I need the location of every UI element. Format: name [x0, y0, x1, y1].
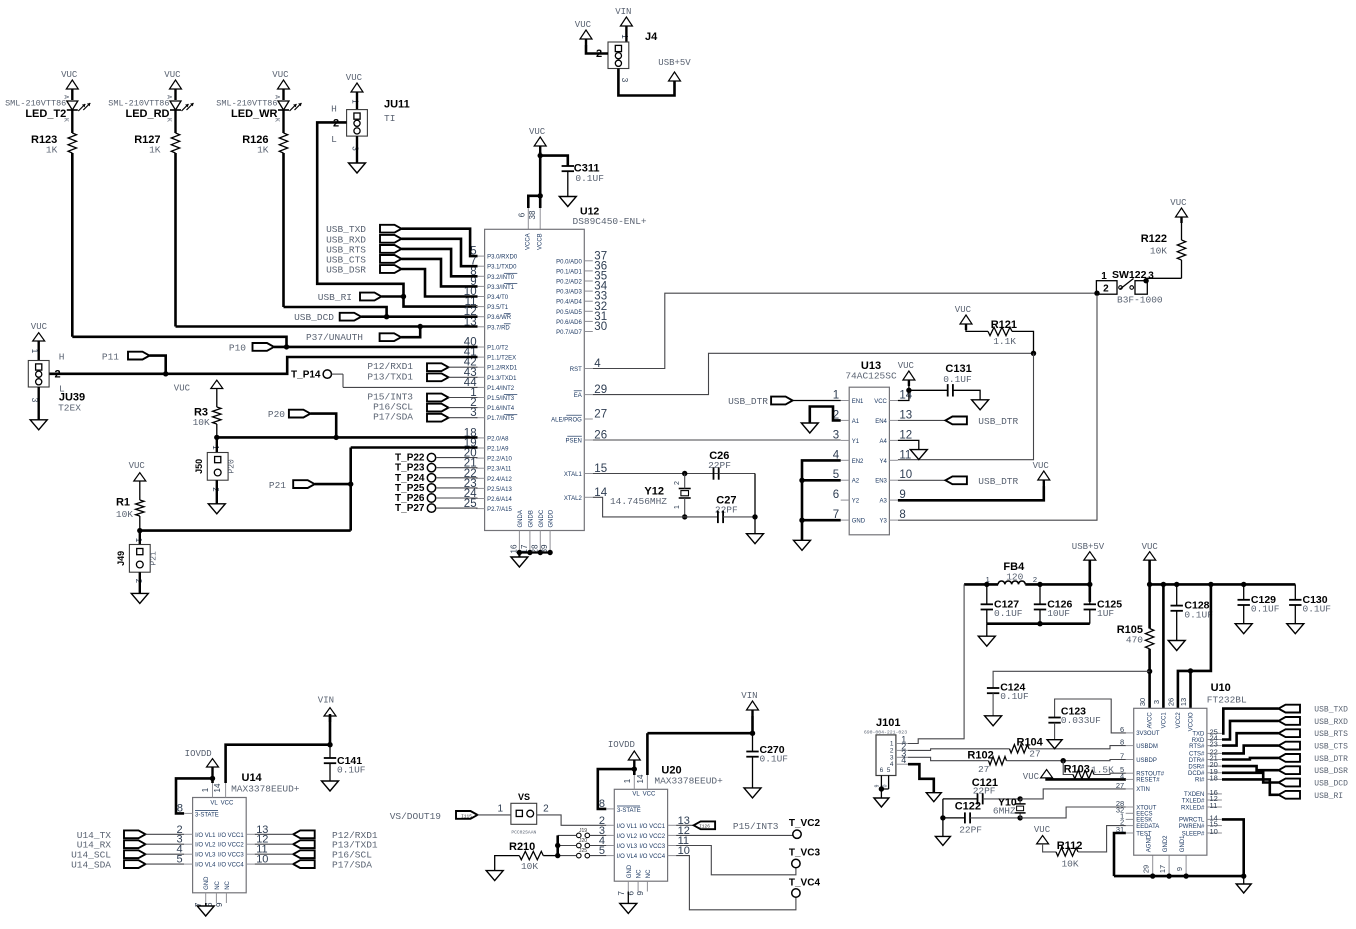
svg-text:I/O VCC4: I/O VCC4: [639, 854, 665, 860]
svg-text:8: 8: [899, 509, 905, 521]
svg-text:0.1UF: 0.1UF: [1184, 610, 1213, 621]
svg-text:ALE/PROG: ALE/PROG: [551, 418, 582, 424]
svg-text:PSEN: PSEN: [565, 439, 581, 445]
svg-text:P3.4/T0: P3.4/T0: [487, 295, 509, 301]
svg-text:J101: J101: [876, 717, 900, 729]
svg-text:USB_RXD: USB_RXD: [1314, 718, 1348, 727]
svg-text:I/O VL4: I/O VL4: [617, 854, 638, 860]
svg-text:9: 9: [636, 891, 645, 896]
svg-text:I/O VL1: I/O VL1: [195, 833, 216, 839]
svg-text:VUC: VUC: [575, 20, 592, 30]
svg-text:RI#: RI#: [1195, 778, 1205, 784]
svg-text:10: 10: [1210, 827, 1218, 836]
svg-text:P2.5/A13: P2.5/A13: [487, 487, 512, 493]
svg-text:P3.0/RXD0: P3.0/RXD0: [487, 255, 518, 261]
svg-text:R210: R210: [509, 841, 535, 853]
svg-text:VUC: VUC: [164, 70, 181, 80]
svg-text:0.1UF: 0.1UF: [1303, 604, 1332, 615]
svg-text:VUC: VUC: [1033, 461, 1050, 471]
svg-text:P1.0/T2: P1.0/T2: [487, 346, 509, 352]
svg-text:SML-210VTT86: SML-210VTT86: [108, 99, 169, 109]
svg-text:VUC: VUC: [346, 73, 363, 83]
svg-text:JU11: JU11: [384, 99, 410, 111]
svg-text:9: 9: [1175, 867, 1184, 871]
svg-text:DCD#: DCD#: [1188, 771, 1205, 777]
svg-text:I/O VL3: I/O VL3: [617, 844, 638, 850]
svg-text:NC: NC: [215, 880, 221, 889]
svg-text:VCCA: VCCA: [526, 233, 532, 250]
svg-text:GNDB: GNDB: [528, 510, 534, 527]
svg-text:H: H: [331, 104, 337, 115]
svg-text:VUC: VUC: [1034, 825, 1051, 835]
svg-text:RST: RST: [570, 367, 582, 373]
svg-text:27: 27: [594, 409, 607, 421]
svg-text:3: 3: [620, 78, 629, 83]
svg-text:P2.6/A14: P2.6/A14: [487, 497, 512, 503]
svg-text:VS: VS: [518, 792, 530, 802]
svg-text:R121: R121: [991, 319, 1017, 331]
svg-text:EN3: EN3: [875, 479, 887, 485]
svg-text:1UF: 1UF: [1097, 608, 1114, 619]
svg-text:RTS#: RTS#: [1189, 744, 1205, 750]
svg-text:27: 27: [1116, 781, 1124, 790]
svg-text:3: 3: [1148, 271, 1154, 282]
svg-text:GND2: GND2: [1163, 835, 1169, 852]
svg-text:PWREN#: PWREN#: [1179, 824, 1205, 830]
svg-text:VUC: VUC: [1170, 198, 1187, 208]
svg-text:USB_DTR: USB_DTR: [978, 416, 1018, 427]
svg-text:GND: GND: [852, 519, 866, 525]
svg-text:P1.1/T2EX: P1.1/T2EX: [487, 356, 516, 362]
svg-text:DS89C450-ENL+: DS89C450-ENL+: [573, 216, 647, 227]
svg-text:9: 9: [215, 902, 224, 907]
svg-text:P0.4/AD4: P0.4/AD4: [556, 300, 582, 306]
svg-text:VUC: VUC: [529, 127, 546, 137]
svg-text:8: 8: [1120, 738, 1124, 747]
svg-text:RESET#: RESET#: [1136, 778, 1160, 784]
svg-text:T_VC2: T_VC2: [789, 818, 821, 829]
svg-text:P2.7/A15: P2.7/A15: [487, 507, 512, 513]
svg-text:10: 10: [899, 469, 912, 481]
svg-text:VUC: VUC: [61, 70, 78, 80]
svg-text:27: 27: [978, 764, 989, 775]
svg-text:11: 11: [1210, 801, 1218, 810]
svg-text:A2: A2: [852, 479, 860, 485]
svg-text:P2.3/A11: P2.3/A11: [487, 467, 512, 473]
svg-text:1: 1: [986, 575, 990, 584]
svg-text:P0.5/AD5: P0.5/AD5: [556, 310, 582, 316]
svg-text:13: 13: [899, 409, 912, 421]
svg-text:R102: R102: [967, 749, 993, 761]
svg-text:3-STATE: 3-STATE: [195, 813, 219, 819]
svg-text:0.1UF: 0.1UF: [760, 754, 789, 765]
svg-text:USBDP: USBDP: [1136, 758, 1157, 764]
svg-text:U10: U10: [1211, 682, 1231, 694]
svg-text:22PF: 22PF: [959, 825, 982, 836]
svg-text:VIN: VIN: [615, 7, 631, 17]
svg-text:P11: P11: [102, 352, 119, 363]
svg-text:EN2: EN2: [852, 459, 864, 465]
svg-text:R104: R104: [1017, 736, 1044, 748]
svg-text:12: 12: [899, 429, 912, 441]
svg-text:9: 9: [875, 784, 881, 787]
svg-text:VCCB: VCCB: [537, 233, 543, 250]
svg-text:0.033UF: 0.033UF: [1061, 715, 1101, 726]
svg-text:1: 1: [620, 34, 629, 39]
svg-text:H: H: [59, 352, 65, 363]
svg-text:J4: J4: [645, 31, 658, 43]
svg-text:5: 5: [887, 767, 891, 774]
svg-text:2: 2: [543, 804, 549, 815]
svg-text:P3.3/INT1: P3.3/INT1: [487, 285, 515, 291]
svg-text:VUC: VUC: [31, 322, 48, 332]
svg-text:2: 2: [134, 579, 143, 584]
svg-text:P1.2/RXD1: P1.2/RXD1: [487, 366, 518, 372]
svg-text:18: 18: [1210, 773, 1218, 782]
svg-text:VUC: VUC: [129, 461, 146, 471]
svg-text:1.1K: 1.1K: [993, 336, 1016, 347]
svg-text:FT232BL: FT232BL: [1207, 695, 1247, 706]
svg-text:VUC: VUC: [174, 384, 191, 394]
svg-text:I/O VCC2: I/O VCC2: [218, 843, 244, 849]
svg-text:1: 1: [674, 505, 681, 509]
svg-text:J50: J50: [194, 459, 204, 474]
svg-text:AVCC: AVCC: [1148, 712, 1154, 729]
svg-text:VCC1: VCC1: [1161, 712, 1167, 729]
svg-text:USB_DTR: USB_DTR: [1314, 755, 1348, 764]
svg-text:Y4: Y4: [880, 459, 888, 465]
svg-text:P0.2/AD2: P0.2/AD2: [556, 280, 582, 286]
svg-text:P21: P21: [269, 480, 286, 491]
svg-text:P20: P20: [268, 409, 285, 420]
svg-text:17: 17: [1158, 865, 1167, 873]
svg-text:A: A: [166, 95, 173, 99]
svg-text:USB_RTS: USB_RTS: [1314, 730, 1348, 739]
svg-text:VUC: VUC: [955, 305, 972, 315]
svg-text:R122: R122: [1141, 233, 1167, 245]
svg-text:I/O VL2: I/O VL2: [617, 834, 638, 840]
svg-text:A4: A4: [880, 439, 888, 445]
svg-text:I126: I126: [699, 824, 710, 830]
svg-text:I/O VL3: I/O VL3: [195, 853, 216, 859]
svg-text:I/O VL1: I/O VL1: [617, 824, 638, 830]
svg-text:P17/SDA: P17/SDA: [332, 860, 372, 871]
svg-text:1: 1: [134, 538, 143, 543]
svg-text:RXLED#: RXLED#: [1181, 805, 1205, 811]
svg-text:P15/INT3: P15/INT3: [733, 821, 779, 832]
svg-text:MAX3378EEUD+: MAX3378EEUD+: [231, 784, 300, 795]
svg-text:A: A: [62, 95, 69, 99]
svg-text:0: 0: [883, 784, 889, 787]
svg-text:29: 29: [1142, 865, 1151, 873]
svg-text:I/O VL4: I/O VL4: [195, 863, 216, 869]
svg-text:6MHZ: 6MHZ: [993, 806, 1016, 817]
svg-text:TI: TI: [384, 113, 395, 124]
svg-text:T_P14: T_P14: [291, 370, 321, 381]
svg-text:I/O VCC1: I/O VCC1: [218, 833, 244, 839]
svg-text:470: 470: [1126, 635, 1143, 646]
svg-text:GNDC: GNDC: [539, 509, 545, 527]
svg-text:CTS#: CTS#: [1189, 752, 1205, 758]
svg-text:P2.0/A8: P2.0/A8: [487, 436, 509, 442]
svg-text:VS/DOUT19: VS/DOUT19: [390, 811, 442, 822]
svg-text:3-STATE: 3-STATE: [617, 808, 641, 814]
svg-text:VCC: VCC: [643, 792, 656, 798]
svg-text:J49: J49: [116, 551, 126, 566]
svg-text:P3.6/WR: P3.6/WR: [487, 315, 512, 321]
svg-text:P0.6/AD6: P0.6/AD6: [556, 320, 582, 326]
svg-text:P1.5/INT3: P1.5/INT3: [487, 396, 515, 402]
svg-text:I/O VCC3: I/O VCC3: [218, 853, 244, 859]
svg-text:3V3OUT: 3V3OUT: [1136, 731, 1160, 737]
svg-text:L: L: [331, 134, 337, 145]
svg-text:1: 1: [211, 445, 220, 450]
svg-text:EN1: EN1: [852, 399, 864, 405]
svg-text:30: 30: [594, 321, 607, 333]
svg-text:USB_DTR: USB_DTR: [978, 476, 1018, 487]
svg-text:Y2: Y2: [852, 499, 860, 505]
svg-text:VUC: VUC: [1142, 542, 1159, 552]
svg-text:1K: 1K: [257, 145, 269, 156]
svg-text:PCC02SAAN: PCC02SAAN: [511, 830, 536, 836]
svg-text:EECS: EECS: [1136, 812, 1152, 818]
svg-text:SW122: SW122: [1112, 269, 1147, 281]
svg-text:VIN: VIN: [318, 696, 334, 706]
svg-text:10K: 10K: [193, 417, 210, 428]
svg-text:4: 4: [1120, 771, 1124, 780]
svg-text:T_VC4: T_VC4: [789, 877, 821, 888]
svg-text:USB_DCD: USB_DCD: [1314, 780, 1348, 789]
svg-text:T2EX: T2EX: [58, 403, 81, 414]
svg-text:P1.4/INT2: P1.4/INT2: [487, 386, 515, 392]
svg-text:0.1UF: 0.1UF: [575, 173, 604, 184]
svg-text:0.1UF: 0.1UF: [337, 765, 366, 776]
svg-text:C122: C122: [955, 801, 981, 813]
svg-text:74AC125SC: 74AC125SC: [845, 371, 897, 382]
svg-text:I/O VCC3: I/O VCC3: [639, 844, 665, 850]
svg-text:1: 1: [498, 804, 504, 815]
svg-text:7: 7: [617, 891, 626, 896]
svg-text:VUC: VUC: [898, 361, 915, 371]
svg-text:1K: 1K: [149, 145, 161, 156]
svg-text:P20: P20: [228, 459, 237, 474]
svg-text:LED_T2: LED_T2: [25, 108, 66, 120]
svg-text:B3F-1000: B3F-1000: [1117, 295, 1163, 306]
svg-text:USB_RI: USB_RI: [318, 292, 352, 303]
svg-text:IOVDD: IOVDD: [185, 749, 212, 759]
svg-text:USB_TXD: USB_TXD: [1314, 706, 1348, 715]
svg-text:VUC: VUC: [272, 70, 289, 80]
svg-text:TXDEN: TXDEN: [1184, 792, 1204, 798]
svg-text:8: 8: [599, 798, 605, 810]
svg-text:LED_WR: LED_WR: [231, 108, 278, 120]
svg-text:USBDM: USBDM: [1136, 744, 1158, 750]
svg-text:30: 30: [1138, 698, 1147, 706]
svg-text:RSTOUT#: RSTOUT#: [1136, 772, 1165, 778]
svg-text:P17/SDA: P17/SDA: [373, 412, 413, 423]
svg-text:R112: R112: [1057, 840, 1083, 852]
svg-text:VCCIO: VCCIO: [1189, 712, 1195, 731]
svg-text:1: 1: [1101, 271, 1107, 282]
svg-text:2: 2: [211, 487, 220, 492]
svg-text:I/O VCC4: I/O VCC4: [218, 863, 244, 869]
svg-text:EESK: EESK: [1136, 818, 1152, 824]
svg-text:10UF: 10UF: [1047, 608, 1070, 619]
svg-text:GND: GND: [627, 864, 633, 878]
svg-text:GND: GND: [204, 876, 210, 890]
svg-text:SML-210VTT86: SML-210VTT86: [216, 99, 277, 109]
svg-text:VIN: VIN: [741, 691, 757, 701]
svg-text:PWRCTL: PWRCTL: [1179, 818, 1205, 824]
svg-text:GND1: GND1: [1180, 835, 1186, 852]
svg-text:GNDD: GNDD: [549, 509, 555, 527]
svg-text:10K: 10K: [1150, 246, 1167, 257]
svg-text:2: 2: [1103, 284, 1109, 295]
svg-text:4: 4: [890, 761, 894, 768]
svg-text:K: K: [166, 118, 173, 122]
svg-text:DSR#: DSR#: [1188, 764, 1205, 770]
svg-text:P2.2/A10: P2.2/A10: [487, 457, 512, 463]
svg-text:A: A: [274, 95, 281, 99]
svg-text:P21: P21: [150, 551, 159, 566]
svg-text:LED_RD: LED_RD: [125, 108, 169, 120]
svg-text:XTAL1: XTAL1: [564, 472, 583, 478]
svg-text:6: 6: [880, 767, 884, 774]
svg-text:P1.6/INT4: P1.6/INT4: [487, 406, 515, 412]
svg-text:P2.4/A12: P2.4/A12: [487, 477, 512, 483]
svg-text:8: 8: [177, 803, 183, 815]
svg-text:USB_RI: USB_RI: [1314, 792, 1343, 801]
svg-text:NC: NC: [646, 869, 652, 878]
svg-text:P2.1/A9: P2.1/A9: [487, 447, 509, 453]
svg-text:0.1UF: 0.1UF: [994, 608, 1023, 619]
svg-text:11: 11: [899, 449, 911, 461]
svg-text:VCC: VCC: [874, 399, 887, 405]
svg-text:10K: 10K: [1061, 859, 1078, 870]
svg-text:GNDA: GNDA: [518, 510, 524, 527]
svg-text:T_VC3: T_VC3: [789, 848, 821, 859]
svg-text:P13/TXD1: P13/TXD1: [367, 371, 413, 382]
svg-text:R1: R1: [116, 497, 130, 509]
svg-text:2: 2: [1033, 575, 1037, 584]
svg-text:P3.5/T1: P3.5/T1: [487, 305, 509, 311]
svg-text:NC: NC: [637, 869, 643, 878]
svg-text:P0.0/AD0: P0.0/AD0: [556, 259, 582, 265]
svg-text:0.1UF: 0.1UF: [943, 374, 972, 385]
svg-text:22PF: 22PF: [708, 460, 731, 471]
svg-text:0.1UF: 0.1UF: [1251, 604, 1280, 615]
svg-text:XTAL2: XTAL2: [564, 496, 583, 502]
svg-text:31: 31: [1116, 825, 1124, 834]
svg-text:I/O VCC1: I/O VCC1: [639, 824, 665, 830]
svg-text:P1.7/INT5: P1.7/INT5: [487, 416, 515, 422]
svg-text:XTIN: XTIN: [1136, 787, 1150, 793]
svg-text:1: 1: [30, 349, 39, 354]
svg-text:RXD: RXD: [1192, 738, 1205, 744]
svg-text:USB_CTS: USB_CTS: [1314, 743, 1348, 752]
svg-text:P37/UNAUTH: P37/UNAUTH: [306, 332, 363, 343]
svg-text:U14_SDA: U14_SDA: [71, 860, 111, 871]
svg-text:T_P27: T_P27: [395, 503, 425, 514]
svg-text:P0.7/AD7: P0.7/AD7: [556, 330, 582, 336]
svg-text:0.1UF: 0.1UF: [1000, 691, 1029, 702]
svg-text:120: 120: [1006, 571, 1023, 582]
svg-text:EN4: EN4: [875, 419, 887, 425]
svg-text:6: 6: [518, 212, 527, 217]
svg-text:SML-210VTT86: SML-210VTT86: [5, 99, 66, 109]
svg-text:R103: R103: [1064, 763, 1090, 775]
svg-text:XTOUT: XTOUT: [1136, 805, 1157, 811]
svg-text:NC: NC: [225, 880, 231, 889]
svg-text:1: 1: [833, 390, 839, 402]
svg-text:DTR#: DTR#: [1189, 758, 1205, 764]
svg-text:VL: VL: [210, 801, 218, 807]
svg-text:TXD: TXD: [1192, 732, 1205, 738]
svg-text:38: 38: [528, 210, 537, 219]
svg-text:26: 26: [1166, 698, 1175, 706]
svg-text:22PF: 22PF: [973, 786, 996, 797]
svg-text:27: 27: [1029, 749, 1040, 760]
svg-text:P10: P10: [229, 342, 246, 353]
svg-text:USB_DSR: USB_DSR: [1314, 767, 1348, 776]
svg-text:U14: U14: [242, 772, 263, 784]
svg-text:1: 1: [623, 778, 632, 783]
svg-text:AGND: AGND: [1147, 834, 1153, 852]
svg-text:USB+5V: USB+5V: [658, 58, 691, 68]
svg-text:USB_DSR: USB_DSR: [326, 265, 366, 276]
svg-text:1K: 1K: [46, 145, 58, 156]
svg-text:10K: 10K: [521, 861, 538, 872]
svg-text:6: 6: [833, 489, 839, 501]
svg-text:VCC: VCC: [221, 801, 234, 807]
svg-text:P0.1/AD1: P0.1/AD1: [556, 269, 582, 275]
svg-text:VUC: VUC: [1023, 772, 1040, 782]
svg-text:K: K: [274, 118, 281, 122]
svg-text:Y1: Y1: [852, 439, 860, 445]
svg-text:P3.7/RD: P3.7/RD: [487, 325, 510, 331]
svg-text:EEDATA: EEDATA: [1136, 824, 1159, 830]
svg-text:USB_DTR: USB_DTR: [728, 396, 768, 407]
svg-text:TXLED#: TXLED#: [1182, 798, 1205, 804]
svg-text:USB+5V: USB+5V: [1072, 542, 1105, 552]
svg-text:A3: A3: [880, 499, 888, 505]
svg-text:VCC2: VCC2: [1176, 712, 1182, 729]
svg-text:7: 7: [1120, 752, 1124, 761]
svg-text:P3.1/TXD0: P3.1/TXD0: [487, 265, 517, 271]
svg-text:14: 14: [213, 783, 222, 792]
svg-text:P0.3/AD3: P0.3/AD3: [556, 290, 582, 296]
svg-text:A1: A1: [852, 419, 860, 425]
svg-text:I/O VL2: I/O VL2: [195, 843, 216, 849]
svg-text:K: K: [62, 118, 69, 122]
svg-text:USB_DCD: USB_DCD: [294, 312, 334, 323]
svg-text:3: 3: [833, 429, 839, 441]
svg-text:10K: 10K: [116, 509, 133, 520]
svg-text:P3.2/INT0: P3.2/INT0: [487, 275, 515, 281]
svg-text:IOVDD: IOVDD: [608, 740, 635, 750]
svg-text:14: 14: [636, 774, 645, 783]
svg-text:MAX3378EEUD+: MAX3378EEUD+: [654, 776, 723, 787]
svg-text:P1.3/TXD1: P1.3/TXD1: [487, 376, 517, 382]
svg-text:I/O VCC2: I/O VCC2: [639, 834, 665, 840]
svg-text:Y3: Y3: [880, 519, 888, 525]
svg-text:1: 1: [201, 787, 210, 792]
svg-text:I115: I115: [461, 813, 472, 819]
svg-text:EA: EA: [574, 393, 582, 399]
svg-text:13: 13: [1179, 698, 1188, 706]
svg-text:VL: VL: [632, 792, 640, 798]
svg-text:2: 2: [674, 481, 681, 485]
